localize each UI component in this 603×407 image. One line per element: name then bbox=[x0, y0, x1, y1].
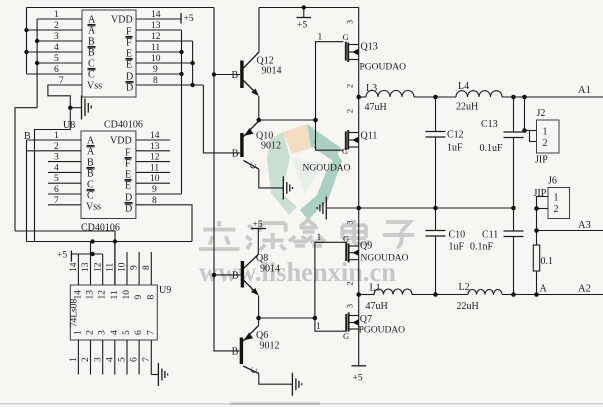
svg-text:F: F bbox=[126, 27, 132, 38]
U82 pin 3 stub bbox=[48, 153, 81, 163]
U82 pin 9 wire to V1 bbox=[136, 185, 182, 195]
svg-text:E: E bbox=[126, 49, 132, 60]
mosfet Q9 NGOUDAO bbox=[343, 220, 409, 285]
U82 pin 8 wire down to U9 feed line bbox=[136, 196, 192, 242]
svg-text:11: 11 bbox=[105, 263, 115, 272]
svg-text:F: F bbox=[125, 148, 131, 159]
U9 pin 14 top wire bbox=[69, 254, 79, 285]
U9 pin 3 bottom wire bbox=[93, 340, 103, 375]
svg-text:G: G bbox=[343, 331, 349, 341]
U82 pin 4 stub bbox=[48, 163, 81, 173]
svg-text:B: B bbox=[88, 48, 95, 59]
svg-text:D: D bbox=[125, 204, 132, 215]
li bbox=[199, 221, 240, 249]
svg-text:L4: L4 bbox=[458, 81, 469, 92]
wire net-B feed line to U9 pin11 bbox=[15, 231, 117, 285]
wire J6 to resistor branch bbox=[534, 209, 539, 246]
svg-text:11: 11 bbox=[110, 290, 120, 299]
svg-text:9012: 9012 bbox=[260, 341, 280, 352]
svg-text:B: B bbox=[232, 149, 239, 160]
node emitter junction upper bbox=[257, 118, 262, 123]
svg-text:A: A bbox=[87, 147, 95, 158]
svg-text:6: 6 bbox=[54, 185, 59, 195]
svg-text:0.1uF: 0.1uF bbox=[480, 143, 504, 154]
node emitter junction lower bbox=[256, 316, 261, 321]
U82 pin 10 stub bbox=[136, 174, 170, 184]
U8 pin 5 wire bbox=[37, 54, 82, 64]
wire U9 feed line y=241.5 bbox=[27, 241, 193, 243]
wire net-A vertical x=26.5 from top line to U82 pin2 bbox=[24, 8, 28, 242]
svg-text:F: F bbox=[125, 159, 131, 170]
wire net-B vertical x=37.1 from U8 pin1 down bbox=[35, 19, 39, 108]
svg-text:1: 1 bbox=[54, 131, 59, 141]
svg-text:Q6: Q6 bbox=[256, 330, 268, 341]
capacitor C13 0.1uF bbox=[480, 97, 524, 208]
svg-text:L2: L2 bbox=[459, 282, 470, 293]
svg-text:22uH: 22uH bbox=[456, 102, 478, 113]
svg-text:3: 3 bbox=[345, 20, 355, 24]
svg-text:C12: C12 bbox=[447, 130, 464, 141]
U82 pin 7 stub bbox=[48, 196, 81, 206]
inductor L1 47uH bbox=[359, 283, 412, 313]
capacitor C10 1uF bbox=[426, 208, 466, 295]
power +5 tap at U8 pin14 bbox=[181, 13, 194, 24]
IC U9 body bbox=[70, 285, 158, 340]
IC U82 body bbox=[81, 131, 136, 219]
wire V1 chain U8 pin13/11/9 to U82 pin9 bbox=[179, 30, 183, 194]
svg-text:1uF: 1uF bbox=[447, 143, 463, 154]
U9 pin 1 bottom wire bbox=[69, 340, 79, 375]
transistor Q8 9014 NPN bbox=[214, 253, 280, 318]
inductor L3 47uH bbox=[359, 83, 414, 113]
zi bbox=[383, 222, 414, 248]
mosfet Q11 NGOUDAO bbox=[303, 109, 378, 174]
svg-text:0.1: 0.1 bbox=[541, 256, 554, 267]
svg-text:5: 5 bbox=[54, 174, 59, 184]
wire A3 output line bbox=[537, 230, 603, 232]
U8 pin 12 wire bbox=[136, 32, 193, 42]
transistor Q6 9012 PNP bbox=[232, 318, 293, 384]
svg-text:1: 1 bbox=[318, 33, 323, 43]
svg-text:B: B bbox=[87, 169, 94, 180]
svg-text:G: G bbox=[342, 146, 348, 156]
svg-text:B: B bbox=[87, 158, 94, 169]
U8 pin 2 wire bbox=[27, 21, 83, 31]
svg-text:A: A bbox=[88, 26, 96, 37]
U82 pin 2 wire bbox=[27, 142, 82, 152]
svg-text:2: 2 bbox=[86, 330, 96, 335]
svg-text:22uH: 22uH bbox=[457, 301, 479, 312]
U8 pin 3 wire bbox=[37, 32, 82, 42]
wire junction to lower gate bracket bbox=[259, 317, 315, 319]
svg-text:B: B bbox=[232, 70, 239, 81]
svg-text:Q13: Q13 bbox=[361, 42, 378, 53]
shen bbox=[246, 223, 286, 250]
wire L1 to L2 bbox=[412, 294, 468, 296]
svg-text:14: 14 bbox=[69, 262, 79, 272]
wire U8 pin8 down to Q10 base bbox=[203, 85, 240, 153]
svg-text:+5: +5 bbox=[57, 251, 67, 261]
watermark shield logo bbox=[267, 124, 342, 220]
svg-text:4: 4 bbox=[105, 357, 115, 362]
wire V2 U8 pin12/10/8 tie bbox=[190, 41, 194, 87]
svg-text:10: 10 bbox=[122, 290, 132, 300]
svg-text:G: G bbox=[343, 32, 349, 42]
connector J2 JIP bbox=[522, 97, 559, 166]
svg-text:14: 14 bbox=[73, 290, 83, 300]
U9 pin 9 top wire bbox=[130, 252, 140, 285]
U82 pin 6 stub bbox=[48, 185, 81, 195]
svg-text:1: 1 bbox=[554, 193, 559, 204]
svg-text:JIP: JIP bbox=[535, 155, 548, 166]
xin bbox=[289, 220, 325, 246]
svg-text:PGOUDAO: PGOUDAO bbox=[359, 326, 406, 336]
mosfet Q13 PGOUDAO bbox=[343, 20, 407, 88]
bottom scan band bbox=[0, 403, 603, 405]
svg-text:2: 2 bbox=[81, 357, 91, 362]
svg-text:7: 7 bbox=[54, 196, 59, 206]
svg-text:1: 1 bbox=[313, 141, 318, 151]
svg-text:Q8: Q8 bbox=[256, 253, 268, 264]
svg-text:L3: L3 bbox=[366, 83, 377, 94]
svg-text:12: 12 bbox=[151, 32, 161, 42]
svg-text:5: 5 bbox=[122, 330, 132, 335]
svg-text:14: 14 bbox=[151, 10, 161, 20]
U8 pin 11 wire bbox=[136, 43, 182, 53]
U8 pin 10 wire bbox=[136, 54, 193, 64]
svg-text:14: 14 bbox=[150, 131, 160, 141]
svg-text:Q7: Q7 bbox=[360, 314, 372, 325]
power +5 at bottom of rail bbox=[352, 366, 367, 384]
svg-text:A2: A2 bbox=[578, 284, 591, 295]
svg-text:Q11: Q11 bbox=[361, 131, 378, 142]
svg-text:C13: C13 bbox=[481, 119, 498, 130]
svg-text:C: C bbox=[87, 180, 94, 191]
svg-text:2: 2 bbox=[345, 84, 355, 88]
svg-text:2: 2 bbox=[54, 142, 59, 152]
svg-text:+5: +5 bbox=[297, 21, 307, 31]
svg-text:8: 8 bbox=[153, 76, 158, 86]
svg-text:9: 9 bbox=[152, 185, 157, 195]
svg-text:4: 4 bbox=[54, 163, 59, 173]
svg-text:7: 7 bbox=[146, 330, 156, 335]
svg-text:C10: C10 bbox=[449, 230, 466, 241]
U9 pin 11 top wire bbox=[105, 243, 115, 285]
svg-text:11: 11 bbox=[151, 43, 160, 53]
svg-text:3: 3 bbox=[345, 304, 355, 308]
watermark chinese text li shen xin dian zi bbox=[199, 220, 414, 250]
svg-text:12: 12 bbox=[93, 262, 103, 272]
svg-text:A: A bbox=[88, 15, 96, 26]
inductor L4 22uH bbox=[456, 81, 502, 113]
svg-text:A3: A3 bbox=[578, 220, 591, 231]
svg-text:NGOUDAO: NGOUDAO bbox=[303, 164, 351, 174]
svg-text:12: 12 bbox=[98, 290, 108, 300]
svg-text:A: A bbox=[540, 284, 548, 295]
power +5 tap above Q8 bbox=[251, 220, 266, 255]
svg-text:10: 10 bbox=[150, 174, 160, 184]
svg-text:JIP: JIP bbox=[534, 188, 547, 199]
svg-text:5: 5 bbox=[118, 357, 128, 362]
svg-text:1: 1 bbox=[543, 127, 548, 138]
svg-text:1: 1 bbox=[316, 322, 321, 332]
U8 pin 13 wire bbox=[136, 21, 182, 31]
svg-text:1: 1 bbox=[69, 357, 79, 362]
svg-text:9: 9 bbox=[134, 295, 144, 300]
wire A2 output line bbox=[433, 292, 603, 297]
power +5 tap top center bbox=[297, 8, 312, 31]
svg-text:9: 9 bbox=[153, 65, 158, 75]
mosfet Q7 PGOUDAO bbox=[343, 304, 405, 341]
wire top line to driver column bbox=[27, 7, 215, 9]
inductor L2 22uH bbox=[457, 282, 503, 312]
svg-text:3: 3 bbox=[54, 32, 59, 42]
svg-text:Vss: Vss bbox=[87, 81, 102, 92]
svg-text:U9: U9 bbox=[159, 285, 171, 296]
U9 pin 10 top wire bbox=[118, 252, 128, 285]
ground at Q6 collector bbox=[292, 373, 301, 396]
U82 pin 11 stub bbox=[136, 163, 170, 173]
svg-text:D: D bbox=[126, 83, 133, 94]
ground at U9 pin7 bbox=[158, 363, 167, 386]
svg-text:A1: A1 bbox=[578, 85, 591, 96]
svg-text:13: 13 bbox=[86, 290, 96, 300]
svg-text:E: E bbox=[126, 60, 132, 71]
svg-text:6: 6 bbox=[54, 65, 59, 75]
svg-text:C: C bbox=[87, 191, 94, 202]
ground at Q10 collector bbox=[283, 176, 292, 199]
svg-text:VDD: VDD bbox=[110, 136, 132, 147]
U8 pin 4 wire bbox=[27, 43, 83, 53]
transistor Q10 9012 PNP bbox=[232, 121, 283, 188]
svg-text:5: 5 bbox=[54, 54, 59, 64]
svg-text:B: B bbox=[88, 37, 95, 48]
svg-text:1: 1 bbox=[54, 10, 59, 20]
wire gate bracket lower bbox=[313, 233, 347, 332]
wire top supply segment bbox=[259, 5, 359, 9]
svg-text:13: 13 bbox=[150, 142, 160, 152]
svg-text:J2: J2 bbox=[537, 108, 546, 119]
U82 pin 13 stub bbox=[136, 142, 170, 152]
svg-text:13: 13 bbox=[81, 262, 91, 272]
U82 pin 5 stub bbox=[48, 174, 81, 184]
svg-text:Vss: Vss bbox=[86, 202, 101, 213]
IC U8 body bbox=[82, 10, 136, 97]
svg-text:2: 2 bbox=[554, 204, 559, 215]
svg-text:1uF: 1uF bbox=[449, 242, 465, 253]
svg-text:2: 2 bbox=[543, 138, 548, 149]
svg-text:9: 9 bbox=[130, 265, 140, 270]
wire driver column x=214 top line to Q6 base bbox=[212, 8, 240, 351]
svg-text:47uH: 47uH bbox=[365, 102, 387, 113]
wire A1 output line bbox=[433, 95, 603, 100]
svg-text:47uH: 47uH bbox=[366, 301, 388, 312]
svg-text:8: 8 bbox=[142, 265, 152, 270]
svg-text:A: A bbox=[87, 136, 95, 147]
connector J6 JIP bbox=[534, 176, 570, 219]
svg-text:1: 1 bbox=[73, 330, 83, 335]
ground below U8 bbox=[82, 96, 92, 120]
wire L3 to L4 bbox=[414, 96, 456, 98]
svg-text:J6: J6 bbox=[548, 176, 557, 187]
svg-text:F: F bbox=[126, 38, 132, 49]
svg-text:+5: +5 bbox=[184, 14, 194, 24]
svg-text:3: 3 bbox=[93, 357, 103, 362]
wire junction to upper gate bracket bbox=[259, 119, 316, 121]
U8 Vss staircase to ground bbox=[48, 85, 82, 110]
U9 pin 8 top wire bbox=[142, 252, 152, 285]
svg-text:Q9: Q9 bbox=[360, 241, 372, 252]
svg-text:CD40106: CD40106 bbox=[104, 120, 143, 131]
svg-text:2: 2 bbox=[345, 281, 355, 285]
svg-text:11: 11 bbox=[150, 163, 159, 173]
wire net-B jog to far left bbox=[15, 108, 37, 231]
svg-text:NGOUDAO: NGOUDAO bbox=[361, 254, 409, 264]
svg-text:12: 12 bbox=[150, 153, 160, 163]
svg-text:CD40106: CD40106 bbox=[81, 223, 120, 234]
svg-text:6: 6 bbox=[130, 357, 140, 362]
capacitor C12 1uF bbox=[426, 97, 464, 208]
svg-text:3: 3 bbox=[54, 153, 59, 163]
svg-text:9014: 9014 bbox=[260, 264, 280, 275]
U82 pin 14 stub bbox=[136, 131, 170, 141]
transistor Q12 9014 NPN bbox=[214, 8, 282, 121]
svg-text:7: 7 bbox=[142, 357, 152, 362]
svg-text:6: 6 bbox=[134, 330, 144, 335]
svg-text:1: 1 bbox=[317, 233, 322, 243]
U82 pin 12 stub bbox=[136, 153, 170, 163]
svg-text:B: B bbox=[232, 347, 239, 358]
svg-text:2: 2 bbox=[345, 109, 355, 113]
svg-text:B: B bbox=[232, 271, 239, 282]
svg-text:9014: 9014 bbox=[262, 66, 282, 77]
U9 pin 12 top wire bbox=[93, 254, 103, 285]
svg-text:2: 2 bbox=[54, 21, 59, 31]
svg-text:VDD: VDD bbox=[111, 15, 133, 26]
U8 pin 1 wire bbox=[37, 10, 82, 20]
U8 pin 14 wire to +5 bbox=[136, 10, 181, 20]
svg-text:C11: C11 bbox=[482, 230, 498, 241]
svg-text:L1: L1 bbox=[370, 283, 381, 294]
svg-text:E: E bbox=[125, 181, 131, 192]
wire midpoint node line bbox=[326, 206, 516, 211]
svg-text:4: 4 bbox=[54, 43, 59, 53]
wire Vss chain down left column bbox=[35, 108, 71, 242]
svg-text:C: C bbox=[88, 59, 95, 70]
svg-text:3: 3 bbox=[98, 330, 108, 335]
svg-text:10: 10 bbox=[151, 54, 161, 64]
svg-text:74Ls08: 74Ls08 bbox=[70, 299, 80, 328]
U8 pin 7 Vss wire bbox=[48, 76, 82, 86]
svg-text:D: D bbox=[125, 193, 132, 204]
ground at midpoint line bbox=[317, 197, 326, 220]
power +5 tap at U9 bbox=[57, 251, 103, 262]
U82 pin 1 wire from net B bbox=[27, 131, 82, 141]
svg-text:PGOUDAO: PGOUDAO bbox=[360, 63, 407, 73]
svg-text:3: 3 bbox=[345, 220, 355, 224]
svg-text:13: 13 bbox=[151, 21, 161, 31]
U9 pin 6 bottom wire bbox=[130, 340, 140, 375]
svg-text:C: C bbox=[88, 70, 95, 81]
U9 pin 7 bottom wire to ground bbox=[142, 340, 159, 375]
wire gate bracket upper bbox=[313, 33, 344, 151]
svg-text:9012: 9012 bbox=[261, 141, 281, 152]
capacitor C11 0.1nF bbox=[470, 208, 524, 295]
svg-text:4: 4 bbox=[110, 330, 120, 335]
U8 pin 6 wire bbox=[27, 65, 83, 75]
svg-text:8: 8 bbox=[146, 295, 156, 300]
svg-text:0.1nF: 0.1nF bbox=[470, 242, 494, 253]
svg-text:D: D bbox=[126, 72, 133, 83]
U9 pin 4 bottom wire bbox=[105, 340, 115, 375]
svg-text:E: E bbox=[125, 170, 131, 181]
svg-text:8: 8 bbox=[152, 196, 157, 206]
U9 pin 13 top wire bbox=[81, 242, 91, 286]
U8 pin 8 wire bbox=[136, 76, 203, 86]
U8 pin 9 wire bbox=[136, 65, 182, 75]
U9 pin 2 bottom wire bbox=[81, 340, 91, 375]
svg-text:G: G bbox=[343, 234, 349, 244]
resistor 0.1 bbox=[533, 245, 553, 295]
U9 pin 5 bottom wire bbox=[118, 340, 128, 375]
wire drain rail vertical bbox=[356, 8, 361, 366]
dian bbox=[342, 220, 368, 244]
svg-text:+5: +5 bbox=[353, 374, 363, 384]
svg-text:10: 10 bbox=[118, 262, 128, 272]
